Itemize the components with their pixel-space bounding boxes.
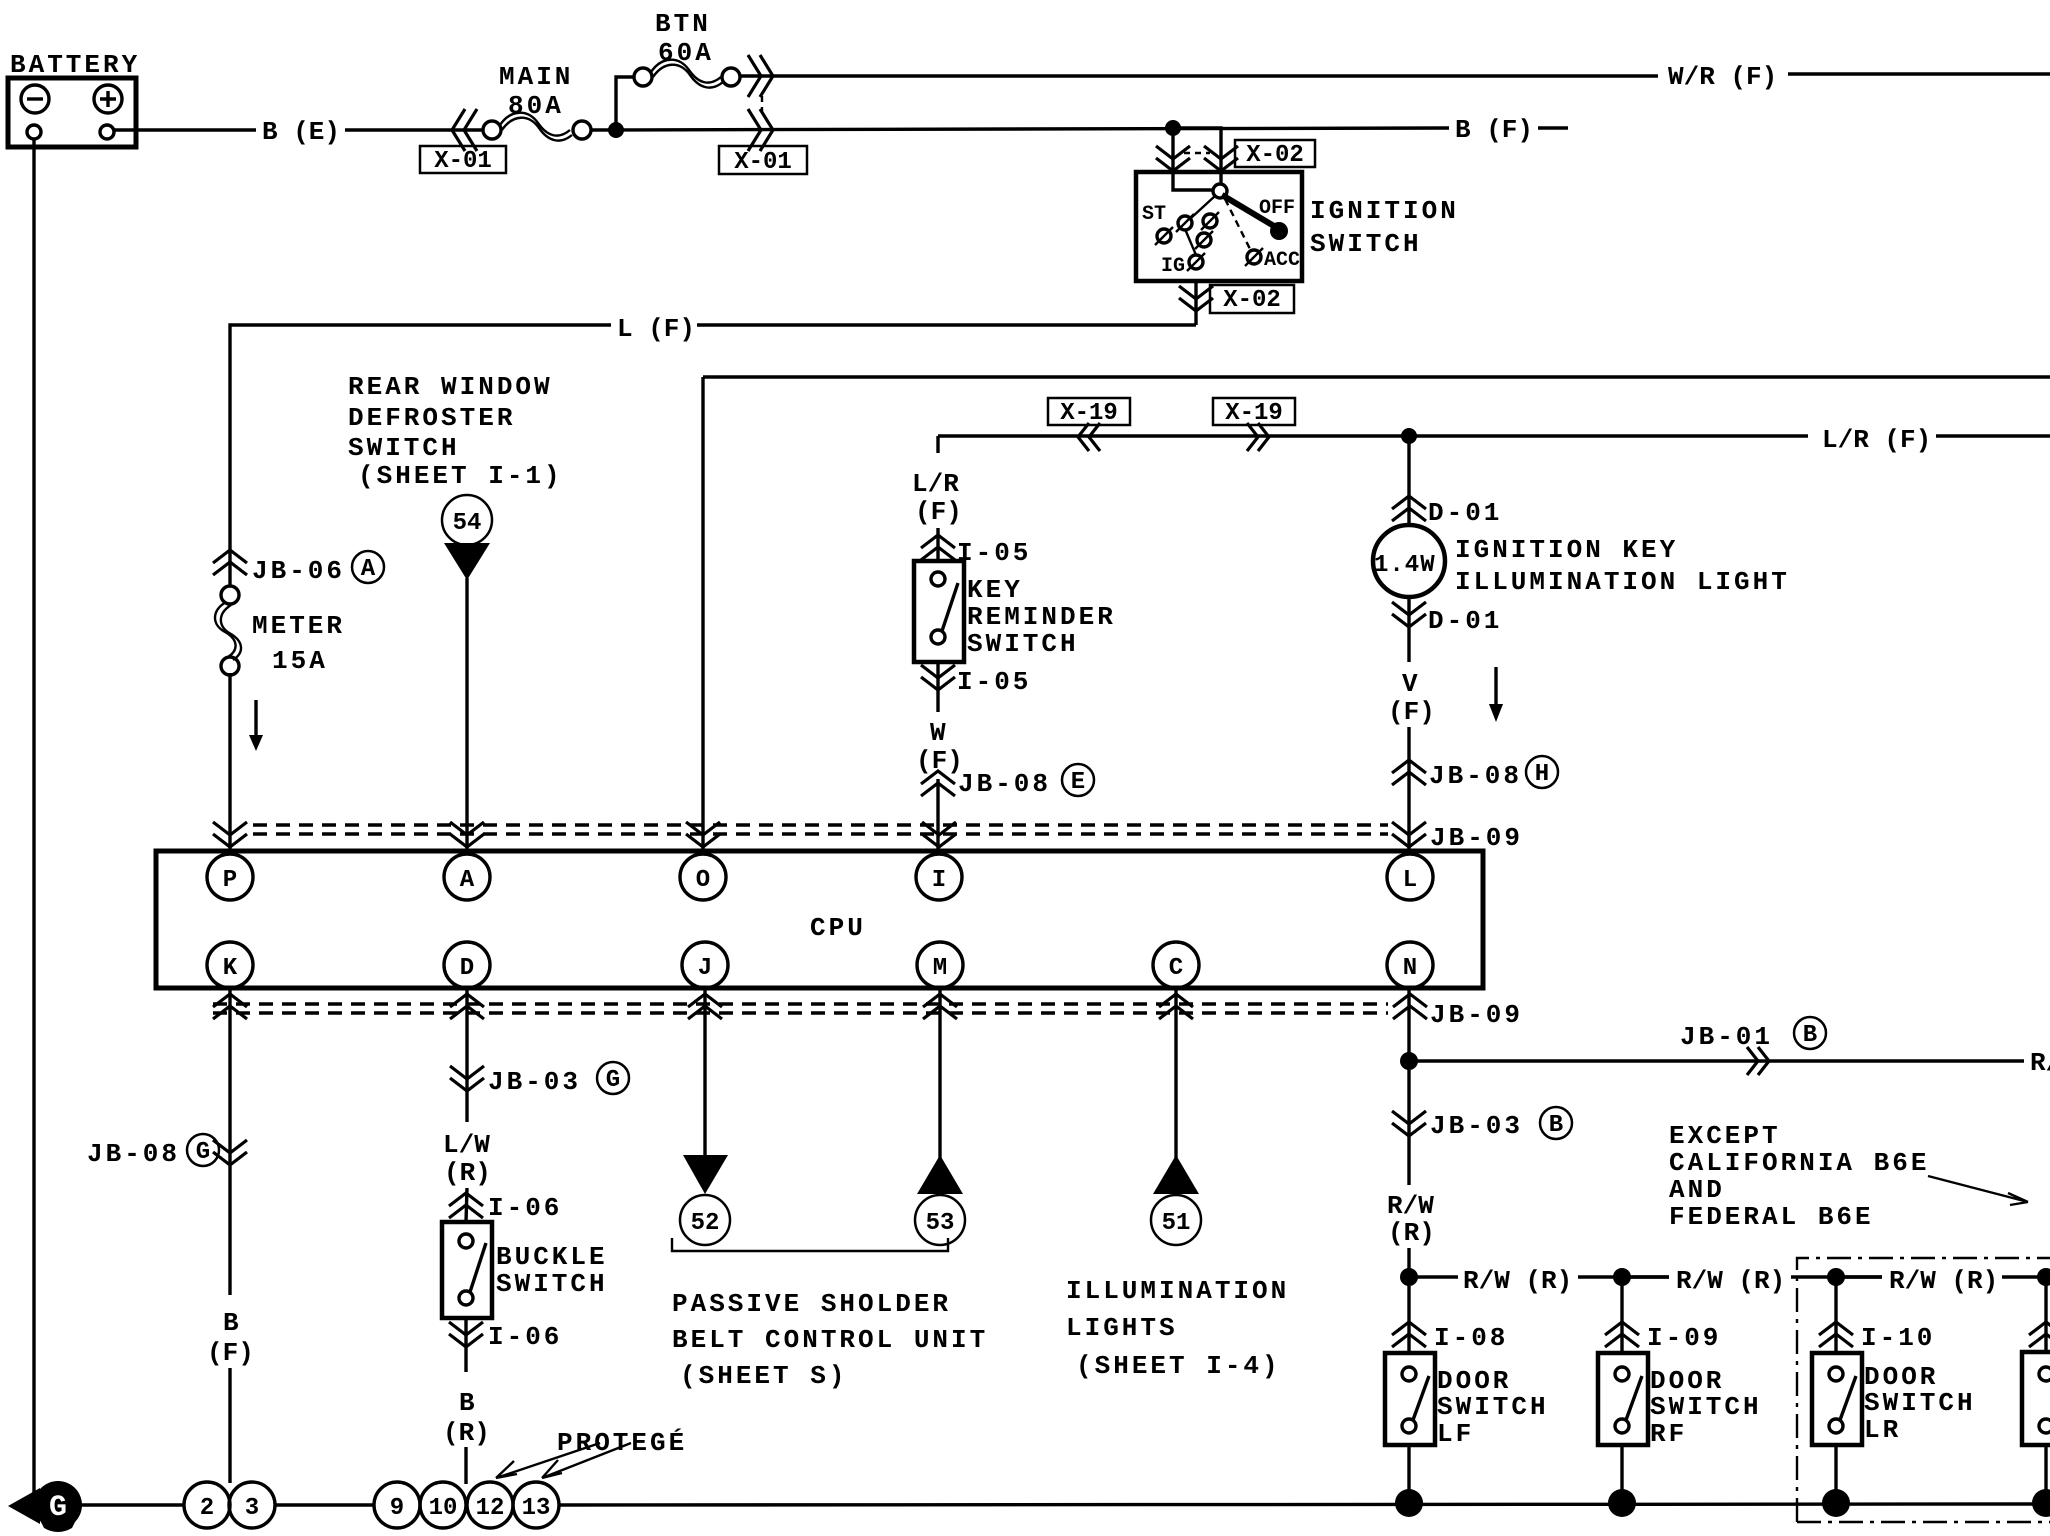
- connector JB-06 A label: [252, 551, 384, 586]
- svg-text:O: O: [696, 867, 710, 894]
- svg-text:(F): (F): [207, 1338, 254, 1368]
- svg-text:1.4W: 1.4W: [1374, 552, 1436, 579]
- svg-text:B: B: [223, 1308, 239, 1338]
- ground point 3: [229, 1482, 275, 1528]
- svg-text:LR: LR: [1864, 1415, 1901, 1445]
- connector X-02 chevrons top: [1156, 146, 1190, 171]
- rear window defroster switch ref 54: [442, 495, 492, 545]
- CPU pin O: [680, 854, 726, 900]
- svg-text:W/R (F): W/R (F): [1668, 62, 1777, 92]
- svg-text:R/W (R): R/W (R): [1676, 1266, 1785, 1296]
- svg-text:L: L: [1403, 867, 1417, 894]
- wire L (F): [230, 325, 1196, 587]
- switch door switch 4th body partial: [2022, 1352, 2050, 1445]
- ignition switch mid terminal c: [1195, 231, 1213, 249]
- junction door RF ground: [1608, 1489, 1636, 1517]
- CPU pin J: [682, 942, 728, 988]
- key reminder switch blade: [942, 583, 958, 631]
- connector I-09 chevron: [1605, 1322, 1639, 1347]
- wire R/W (R) row segment 3: [1844, 1275, 2040, 1278]
- ignition switch mid terminal b: [1201, 212, 1219, 230]
- connector JB-03 G chevron: [450, 1066, 484, 1091]
- svg-text:(F): (F): [1388, 697, 1435, 727]
- svg-text:MAIN: MAIN: [499, 62, 573, 92]
- connector JB-06 chevron: [213, 550, 247, 575]
- ignition switch rotor thin line: [1191, 196, 1215, 218]
- CPU pin K: [207, 942, 253, 988]
- connector JB-08 G chevron: [213, 1140, 247, 1165]
- bus JB-09 upper chevrons: [213, 822, 247, 847]
- door switch LF bottom contact: [1402, 1419, 1416, 1433]
- current flow arrow down: [249, 700, 263, 751]
- wire R/W RF drop: [1620, 1277, 1623, 1353]
- wire METER fuse to CPU pin P: [228, 673, 231, 851]
- svg-text:D-01: D-01: [1428, 606, 1502, 636]
- current flow arrow down right: [1489, 667, 1503, 722]
- wire B (F) fuse to ignition switch: [591, 128, 1568, 130]
- door switch LR bottom contact: [1829, 1419, 1843, 1433]
- svg-text:60A: 60A: [658, 38, 714, 68]
- svg-text:R/W (R): R/W (R): [1463, 1266, 1572, 1296]
- connector I-05 chevron lower: [921, 665, 955, 690]
- svg-text:SWITCH: SWITCH: [1437, 1392, 1549, 1422]
- wire B (E) battery to fuse MAIN: [114, 128, 484, 131]
- ground point 9: [374, 1482, 420, 1528]
- svg-text:X-19: X-19: [1225, 400, 1283, 427]
- connector I-10 chevron: [1819, 1322, 1853, 1347]
- connector JB-03 B chevron: [1392, 1111, 1426, 1136]
- junction at MAIN fuse output: [608, 122, 624, 138]
- svg-text:PASSIVE SHOLDER: PASSIVE SHOLDER: [672, 1289, 951, 1319]
- wire O branch vertical to CPU pin O: [701, 377, 704, 851]
- wire CPU pin J to 52: [703, 988, 706, 1158]
- svg-text:B: B: [1549, 1112, 1563, 1139]
- svg-text:JB-03: JB-03: [1430, 1111, 1523, 1141]
- connector JB-01 B label: [1680, 1017, 1826, 1052]
- svg-text:JB-08: JB-08: [87, 1139, 180, 1169]
- connector X-01 chevron on W/R wire: [748, 55, 773, 97]
- svg-text:9: 9: [390, 1495, 404, 1522]
- door switch RF top contact: [1615, 1367, 1629, 1381]
- svg-text:51: 51: [1162, 1210, 1191, 1237]
- svg-text:D: D: [460, 955, 474, 982]
- wire door switch LR to ground: [1834, 1445, 1837, 1503]
- ref 51 illumination lights: [1151, 1195, 1201, 1245]
- svg-text:G: G: [196, 1139, 210, 1166]
- ignition switch OFF contact dot: [1270, 222, 1288, 240]
- svg-text:(R): (R): [443, 1418, 490, 1448]
- fuse BTN 60A: [634, 60, 740, 88]
- svg-text:54: 54: [453, 510, 482, 537]
- CPU pin P: [207, 854, 253, 900]
- junction JB-01 branch: [1400, 1052, 1418, 1070]
- connector X-02 chevron bottom: [1179, 286, 1213, 311]
- svg-text:JB-08: JB-08: [1429, 761, 1522, 791]
- svg-text:AND: AND: [1669, 1175, 1725, 1205]
- key reminder switch bottom contact: [931, 630, 945, 644]
- svg-text:X-01: X-01: [434, 148, 492, 175]
- svg-text:KEY: KEY: [967, 575, 1023, 605]
- wire ignition feed right leg: [1173, 128, 1221, 185]
- key reminder switch top contact: [931, 572, 945, 586]
- svg-text:PROTEGÉ: PROTEGÉ: [557, 1428, 687, 1458]
- svg-text:JB-08: JB-08: [958, 769, 1051, 799]
- svg-text:X-01: X-01: [734, 149, 792, 176]
- svg-text:I-10: I-10: [1861, 1323, 1935, 1353]
- junction R/W row right edge: [2037, 1268, 2050, 1286]
- connector X-02 label box top: [1235, 140, 1315, 169]
- junction door LR ground: [1822, 1489, 1850, 1517]
- wire R/W LR drop: [1834, 1277, 1837, 1353]
- wire L/R (F) horizontal: [938, 434, 2050, 437]
- connector X-01 link dashes: [761, 96, 763, 112]
- svg-text:I-09: I-09: [1647, 1323, 1721, 1353]
- svg-text:I-06: I-06: [488, 1193, 562, 1223]
- svg-text:L/W: L/W: [443, 1130, 490, 1160]
- svg-text:JB-01: JB-01: [1680, 1022, 1773, 1052]
- svg-text:EXCEPT: EXCEPT: [1669, 1121, 1781, 1151]
- ignition switch ST-IG link: [1185, 229, 1196, 255]
- CPU pin A: [444, 854, 490, 900]
- door switch 4th contacts: [2039, 1367, 2050, 1381]
- connector X-01 chevron on B (F) wire: [748, 109, 773, 151]
- svg-text:SWITCH: SWITCH: [1650, 1392, 1762, 1422]
- connector X-01 label box left: [420, 146, 506, 175]
- svg-text:X-19: X-19: [1060, 400, 1118, 427]
- wire CPU pin N down: [1407, 988, 1410, 1353]
- svg-text:CALIFORNIA B6E: CALIFORNIA B6E: [1669, 1148, 1929, 1178]
- connector X-19 label box 2: [1213, 398, 1295, 427]
- dash-dot option box: [1797, 1258, 2050, 1522]
- battery negative terminal symbol: [21, 85, 49, 113]
- wire ignition feed left leg: [1173, 128, 1214, 190]
- svg-text:JB-06: JB-06: [252, 556, 345, 586]
- wire IG output: [1194, 281, 1197, 325]
- CPU pin I: [916, 854, 962, 900]
- switch DOOR SWITCH LR body: [1812, 1353, 1862, 1445]
- wire CPU pin C to 51: [1174, 988, 1177, 1158]
- junction door LF ground: [1395, 1489, 1423, 1517]
- switch BUCKLE SWITCH body: [442, 1222, 492, 1318]
- switch DOOR SWITCH RF body: [1598, 1353, 1648, 1445]
- svg-text:REAR WINDOW: REAR WINDOW: [348, 372, 553, 402]
- ground point 12: [467, 1482, 513, 1528]
- svg-text:JB-03: JB-03: [488, 1067, 581, 1097]
- buckle switch bottom contact: [459, 1291, 473, 1305]
- ignition switch IG terminal: [1187, 253, 1205, 271]
- ground G symbol: [8, 1481, 82, 1532]
- junction B (F) at ignition feed: [1165, 120, 1181, 136]
- svg-text:IGNITION KEY: IGNITION KEY: [1455, 535, 1678, 565]
- svg-text:IGNITION: IGNITION: [1310, 196, 1459, 226]
- connector X-01 label box right: [719, 146, 807, 176]
- svg-text:N: N: [1403, 955, 1417, 982]
- note arrow: [1928, 1176, 2028, 1205]
- connector X-19 chevron 2: [1247, 423, 1269, 451]
- protege arrow to 13: [542, 1443, 631, 1478]
- bus JB-09 lower dashed: [213, 1002, 1388, 1005]
- svg-text:52: 52: [691, 1210, 720, 1237]
- svg-text:(R): (R): [1388, 1218, 1435, 1248]
- wire 54 to CPU pin A: [465, 578, 468, 851]
- svg-text:CPU: CPU: [810, 913, 866, 943]
- wire buckle switch to ground: [464, 1318, 467, 1484]
- wire CPU pin M to 53: [938, 988, 941, 1158]
- battery positive post: [100, 125, 114, 139]
- connector X-01 chevron on B (E) wire: [452, 109, 477, 151]
- svg-text:10: 10: [429, 1495, 458, 1522]
- wire ignition key light column: [1407, 436, 1410, 851]
- svg-text:A: A: [361, 556, 376, 583]
- door switch RF bottom contact: [1615, 1419, 1629, 1433]
- CPU pin N: [1387, 942, 1433, 988]
- svg-text:L/R (F): L/R (F): [1822, 425, 1931, 455]
- wire door switch LF to ground: [1407, 1445, 1410, 1503]
- junction door 4th ground: [2032, 1489, 2050, 1517]
- svg-text:V: V: [1402, 669, 1418, 699]
- svg-text:BUCKLE: BUCKLE: [496, 1242, 608, 1272]
- connector I-08 chevron: [1392, 1322, 1426, 1347]
- off-sheet triangle to 52: [683, 1155, 728, 1194]
- connector D-01 chevron lower: [1392, 602, 1426, 627]
- connector JB-08 G label: [87, 1134, 219, 1169]
- door switch LF top contact: [1402, 1367, 1416, 1381]
- svg-text:2: 2: [200, 1495, 214, 1522]
- door switch LR blade: [1840, 1376, 1856, 1420]
- svg-text:P: P: [223, 867, 237, 894]
- svg-text:ST: ST: [1142, 203, 1166, 226]
- wire door switch RF to ground: [1620, 1445, 1623, 1503]
- lamp IGNITION KEY ILLUMINATION LIGHT 1.4W: [1373, 525, 1445, 597]
- ignition switch ACC terminal: [1245, 248, 1263, 266]
- CPU box: [156, 851, 1483, 988]
- wire junction to BTN fuse branch: [616, 77, 634, 130]
- junction R/W row LR: [1827, 1268, 1845, 1286]
- off-sheet triangle to 54: [444, 543, 490, 580]
- svg-text:I-05: I-05: [957, 667, 1031, 697]
- svg-text:A: A: [460, 867, 475, 894]
- svg-text:G: G: [606, 1067, 620, 1094]
- svg-text:(F): (F): [915, 497, 962, 527]
- svg-text:K: K: [223, 955, 238, 982]
- ignition switch rotor to OFF contact: [1222, 195, 1274, 226]
- svg-text:G: G: [49, 1491, 67, 1525]
- ground point 2: [184, 1482, 230, 1528]
- connector X-02 label box bottom: [1210, 285, 1294, 314]
- connector JB-03 G label: [488, 1062, 629, 1097]
- connector D-01 chevron upper: [1392, 496, 1426, 521]
- svg-text:ILLUMINATION: ILLUMINATION: [1066, 1276, 1289, 1306]
- svg-text:80A: 80A: [508, 91, 564, 121]
- ground point 13: [513, 1482, 559, 1528]
- svg-text:X-02: X-02: [1246, 142, 1304, 169]
- switch DOOR SWITCH LF body: [1385, 1353, 1435, 1445]
- connector JB-08 H chevron: [1392, 760, 1426, 785]
- wire R/W (R) row segment 2: [1630, 1275, 1882, 1278]
- wire key reminder column lower: [936, 662, 939, 851]
- svg-text:M: M: [933, 955, 947, 982]
- svg-text:REMINDER: REMINDER: [967, 602, 1116, 632]
- buckle switch top contact: [459, 1234, 473, 1248]
- svg-text:X-02: X-02: [1223, 287, 1281, 314]
- svg-text:(SHEET I-4): (SHEET I-4): [1076, 1351, 1281, 1381]
- connector X-02 link dashes: [1184, 152, 1210, 154]
- svg-text:H: H: [1535, 761, 1549, 788]
- svg-text:DEFROSTER: DEFROSTER: [348, 403, 515, 433]
- svg-text:D-01: D-01: [1428, 498, 1502, 528]
- bracket under 52 and 53: [672, 1238, 948, 1251]
- svg-text:BTN: BTN: [655, 9, 711, 39]
- connector JB-08 H label: [1429, 756, 1558, 791]
- wire CPU pin K to ground: [228, 988, 231, 1483]
- svg-text:SWITCH: SWITCH: [348, 433, 460, 463]
- protege arrow to 12: [496, 1443, 600, 1478]
- svg-text:R/W (R): R/W (R): [1889, 1266, 1998, 1296]
- svg-text:I-06: I-06: [488, 1322, 562, 1352]
- svg-text:R/W (R): R/W (R): [2030, 1048, 2050, 1078]
- svg-text:FEDERAL B6E: FEDERAL B6E: [1669, 1202, 1874, 1232]
- svg-text:LF: LF: [1437, 1419, 1474, 1449]
- svg-text:13: 13: [522, 1495, 551, 1522]
- ignition switch ST terminal: [1155, 227, 1173, 245]
- svg-text:I-05: I-05: [957, 538, 1031, 568]
- off-sheet triangle from 53: [917, 1155, 963, 1194]
- fuse MAIN 80A: [483, 113, 591, 141]
- bus JB-09 lower chevrons: [213, 994, 247, 1019]
- junction L/R at ignition key light: [1401, 428, 1417, 444]
- svg-text:I-08: I-08: [1434, 1323, 1508, 1353]
- ground wire bottom: [80, 1504, 2050, 1505]
- CPU pin D: [444, 942, 490, 988]
- switch IGNITION SWITCH body: [1136, 172, 1302, 281]
- svg-text:(SHEET I-1): (SHEET I-1): [358, 461, 563, 491]
- ignition switch pivot: [1213, 184, 1227, 198]
- wire JB-01 B: [1417, 1059, 2024, 1062]
- CPU pin M: [917, 942, 963, 988]
- wire W/R (F) top: [740, 74, 2050, 76]
- svg-text:15A: 15A: [272, 646, 328, 676]
- wire R/W 4th drop: [2044, 1277, 2047, 1352]
- svg-text:SWITCH: SWITCH: [1310, 229, 1422, 259]
- svg-text:R/W: R/W: [1387, 1191, 1434, 1221]
- switch KEY REMINDER SWITCH body: [914, 561, 964, 662]
- door switch LR top contact: [1829, 1367, 1843, 1381]
- svg-text:B (F): B (F): [1455, 115, 1533, 145]
- bus JB-09 upper dashed: [253, 823, 1388, 826]
- svg-text:3: 3: [245, 1495, 259, 1522]
- svg-text:B: B: [1803, 1022, 1817, 1049]
- connector X-19 label box 1: [1048, 398, 1130, 427]
- wire key reminder column upper: [936, 436, 939, 561]
- ref 52 passive shoulder belt: [680, 1195, 730, 1245]
- svg-text:OFF: OFF: [1259, 197, 1295, 220]
- wire door switch 4th to ground: [2044, 1445, 2047, 1503]
- svg-text:SWITCH: SWITCH: [967, 629, 1079, 659]
- svg-text:SWITCH: SWITCH: [496, 1269, 608, 1299]
- connector JB-03 B label: [1430, 1107, 1572, 1141]
- wire CPU pin D to buckle switch: [466, 988, 467, 1222]
- svg-text:J: J: [698, 955, 712, 982]
- svg-text:C: C: [1169, 955, 1183, 982]
- svg-text:12: 12: [476, 1495, 505, 1522]
- svg-text:METER: METER: [252, 611, 345, 641]
- connector 4th chevron partial: [2029, 1322, 2050, 1347]
- connector I-06 chevron upper: [449, 1193, 483, 1218]
- svg-text:I: I: [932, 867, 946, 894]
- CPU pin C: [1153, 942, 1199, 988]
- svg-text:JB-09: JB-09: [1430, 1000, 1523, 1030]
- svg-text:E: E: [1071, 769, 1085, 796]
- svg-text:(SHEET S): (SHEET S): [680, 1361, 847, 1391]
- svg-text:ILLUMINATION LIGHT: ILLUMINATION LIGHT: [1455, 567, 1790, 597]
- svg-text:BELT CONTROL UNIT: BELT CONTROL UNIT: [672, 1325, 988, 1355]
- svg-text:L/R: L/R: [912, 469, 959, 499]
- battery body: [8, 78, 136, 147]
- junction R/W row LF: [1400, 1268, 1418, 1286]
- battery negative post: [27, 125, 41, 139]
- connector JB-08 E label: [958, 764, 1094, 799]
- svg-text:SWITCH: SWITCH: [1864, 1388, 1976, 1418]
- connector X-19 chevron 1: [1078, 423, 1100, 451]
- svg-text:L (F): L (F): [617, 314, 695, 344]
- connector I-06 chevron lower: [449, 1322, 483, 1347]
- svg-text:W: W: [930, 718, 946, 748]
- svg-text:53: 53: [926, 1210, 955, 1237]
- connector JB-08 E chevron: [921, 771, 955, 796]
- door switch LF blade: [1413, 1376, 1429, 1420]
- ignition switch dashed rotor to ACC: [1225, 199, 1250, 249]
- svg-text:B (E): B (E): [262, 117, 340, 147]
- buckle switch blade: [470, 1243, 486, 1292]
- junction R/W row RF: [1613, 1268, 1631, 1286]
- wire O branch horizontal: [703, 375, 2050, 378]
- connector JB-01 chevron: [1747, 1047, 1769, 1075]
- ignition switch mid terminal a: [1176, 214, 1194, 232]
- svg-text:RF: RF: [1650, 1419, 1687, 1449]
- svg-text:ACC: ACC: [1264, 249, 1300, 272]
- battery positive terminal symbol: [94, 85, 122, 113]
- wire R/W (R) row segment 1: [1417, 1275, 1669, 1278]
- ground point 10: [420, 1482, 466, 1528]
- svg-text:IG: IG: [1161, 255, 1185, 278]
- svg-text:LIGHTS: LIGHTS: [1066, 1313, 1178, 1343]
- CPU pin L: [1387, 854, 1433, 900]
- off-sheet triangle from 51: [1153, 1155, 1199, 1194]
- fuse METER 15A: [215, 586, 241, 675]
- svg-text:B: B: [459, 1388, 475, 1418]
- door switch RF blade: [1626, 1376, 1642, 1420]
- ref 53 passive shoulder belt: [915, 1195, 965, 1245]
- connector I-05 chevron upper: [921, 535, 955, 560]
- svg-text:(R): (R): [444, 1158, 491, 1188]
- wire battery negative to ground G: [32, 139, 35, 1497]
